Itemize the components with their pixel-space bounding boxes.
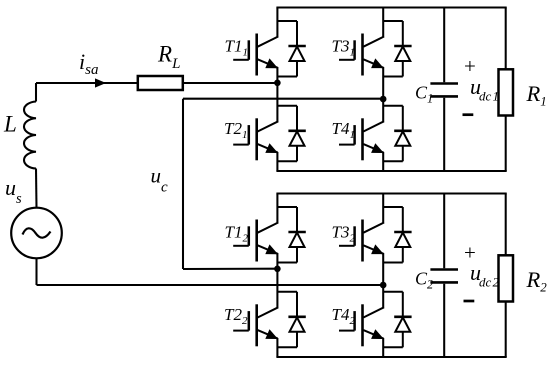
svg-text:C1: C1 — [415, 82, 433, 105]
svg-text:T31: T31 — [332, 37, 355, 59]
bridge1 left leg middle wire — [276, 67, 278, 122]
bridge2 right leg lower wire — [382, 338, 384, 357]
transistor T2_1 — [233, 118, 278, 160]
minus sign bridge1 — [463, 113, 474, 116]
wire source bottom vertical — [35, 258, 37, 285]
capacitor C1 plates — [430, 84, 458, 97]
bridge1 left leg upper wire — [276, 8, 278, 38]
diode D4_2 — [383, 292, 411, 348]
svg-text:C2: C2 — [415, 268, 433, 291]
wire source top horizontal — [36, 82, 138, 84]
transistor T3_2 — [339, 220, 384, 262]
node bridge1 right — [380, 96, 387, 103]
svg-text:T21: T21 — [224, 119, 247, 141]
bridge2 top rail — [276, 192, 506, 194]
transistor T3_1 — [339, 34, 384, 76]
diode D4_1 — [383, 106, 411, 162]
svg-text:udc2: udc2 — [470, 260, 499, 290]
resistor R2 column lower wire — [505, 302, 507, 358]
bridge2 bottom rail — [276, 356, 506, 358]
diode D1_2 — [277, 207, 305, 263]
svg-text:T41: T41 — [332, 119, 355, 141]
sine wave — [23, 228, 51, 237]
bridge2 right leg middle wire — [382, 253, 384, 308]
svg-text:R1: R1 — [526, 81, 547, 109]
transistor T1_1 — [233, 34, 278, 76]
node bridge1 left — [274, 80, 281, 87]
resistor R1 — [499, 69, 514, 115]
bridge1 right leg upper wire — [382, 8, 384, 38]
svg-text:L: L — [3, 112, 17, 137]
bridge2 right leg upper wire — [382, 194, 384, 224]
capacitor C2 column upper wire — [443, 194, 445, 269]
wire u_c bottom horizontal — [183, 268, 277, 270]
bridge1 top rail — [276, 6, 506, 8]
diode D1_1 — [277, 21, 305, 77]
current arrow i_sa — [95, 78, 106, 87]
capacitor C2 plates — [430, 270, 458, 283]
transistor T1_2 — [233, 220, 278, 262]
inductor L — [24, 102, 36, 169]
svg-text:T42: T42 — [332, 305, 356, 327]
transistor T4_2 — [339, 304, 384, 346]
diode D3_1 — [383, 21, 411, 77]
wire source left vertical — [35, 83, 37, 102]
transistor T2_2 — [233, 304, 278, 346]
resistor R2 column upper wire — [505, 194, 507, 256]
diode D2_2 — [277, 292, 305, 348]
resistor R_L — [138, 76, 183, 90]
capacitor C1 column lower wire — [443, 98, 445, 171]
bridge1 right leg middle wire — [382, 67, 384, 122]
bridge1 right leg lower wire — [382, 152, 384, 171]
node bridge2 right — [380, 282, 387, 289]
svg-text:T32: T32 — [332, 223, 356, 245]
diode D3_2 — [383, 207, 411, 263]
wire inductor to source — [35, 169, 38, 209]
ac source u_s — [11, 208, 62, 259]
bridge1 bottom rail — [276, 170, 506, 172]
bridge2 left leg upper wire — [276, 194, 278, 224]
svg-text:udc1: udc1 — [470, 74, 499, 104]
svg-text:RL: RL — [157, 42, 180, 73]
wire source bottom horizontal — [37, 284, 384, 286]
diode D2_1 — [277, 106, 305, 162]
wire u_c top horizontal — [183, 98, 383, 100]
capacitor C1 column upper wire — [443, 8, 445, 83]
bridge2 left leg middle wire — [276, 253, 278, 308]
svg-text:R2: R2 — [526, 267, 548, 295]
svg-text:T12: T12 — [225, 223, 249, 245]
svg-text:uc: uc — [151, 164, 169, 196]
resistor R1 column lower wire — [505, 116, 507, 172]
node bridge2 left — [274, 266, 281, 273]
svg-text:isa: isa — [79, 49, 98, 78]
svg-text:us: us — [5, 175, 22, 207]
transistor T4_1 — [339, 118, 384, 160]
bridge1 left leg lower wire — [276, 152, 278, 171]
capacitor C2 column lower wire — [443, 284, 445, 357]
resistor R1 column upper wire — [505, 8, 507, 70]
wire R_L to bridge1 — [183, 82, 278, 84]
minus sign bridge2 — [464, 300, 475, 303]
svg-text:T11: T11 — [225, 37, 248, 59]
svg-text:T22: T22 — [224, 305, 248, 327]
wire u_c vertical — [182, 99, 184, 269]
bridge2 left leg lower wire — [276, 338, 278, 357]
resistor R2 — [499, 255, 514, 301]
